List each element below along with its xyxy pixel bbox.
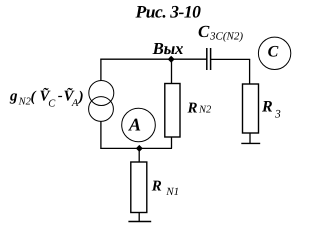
svg-text:A: A xyxy=(128,114,141,134)
wire: bottom horizontal xyxy=(100,147,172,149)
svg-text:N1: N1 xyxy=(165,186,179,198)
svg-text:-: - xyxy=(58,88,63,104)
wire: RN2 bottom to bottom wire xyxy=(171,137,173,148)
svg-text:C: C xyxy=(268,43,279,60)
resistor RN2 xyxy=(165,84,180,138)
ground (RN1) xyxy=(128,221,151,223)
wire: vertical from top wire down to current source top xyxy=(100,59,102,81)
svg-text:g: g xyxy=(9,89,18,105)
svg-text:Рис. 3-10: Рис. 3-10 xyxy=(135,1,202,21)
capacitor C3C(N2) plates xyxy=(206,48,208,70)
circle label A xyxy=(122,108,156,142)
resistor RN1 xyxy=(131,162,147,213)
svg-text:Вых: Вых xyxy=(152,39,184,58)
svg-text:C: C xyxy=(198,22,210,41)
label gN2(VC-VA) xyxy=(9,87,84,109)
current source G (two overlapping circles) xyxy=(89,81,114,106)
svg-text:R: R xyxy=(261,99,273,116)
svg-text:N2: N2 xyxy=(198,105,212,116)
wire: down to R3 xyxy=(249,59,251,84)
svg-text:R: R xyxy=(151,178,162,194)
svg-text:): ) xyxy=(77,89,84,105)
wire: node Вых down to RN2 xyxy=(171,59,173,84)
svg-text:N2: N2 xyxy=(18,97,32,108)
wire: junction down to RN1 xyxy=(138,148,140,162)
svg-text:3C(N2): 3C(N2) xyxy=(209,31,243,43)
svg-text:C: C xyxy=(48,98,56,109)
resistor R3 xyxy=(243,84,259,133)
junction dot (node A junction) xyxy=(136,145,143,152)
circle label C xyxy=(258,37,290,69)
wire: capacitor right plate to R3 xyxy=(210,58,250,60)
wire: current source bottom to lower-left corner xyxy=(100,121,102,149)
svg-text:3: 3 xyxy=(274,109,281,121)
wire: top horizontal from current source to capacitor left plate xyxy=(100,58,206,60)
svg-text:(: ( xyxy=(31,89,37,105)
svg-text:R: R xyxy=(187,100,198,116)
node dot (Вых node) xyxy=(168,56,175,63)
wire: R3 bottom to ground xyxy=(249,133,251,143)
wire: RN1 bottom to ground xyxy=(138,213,140,222)
ground (R3) xyxy=(241,142,260,144)
